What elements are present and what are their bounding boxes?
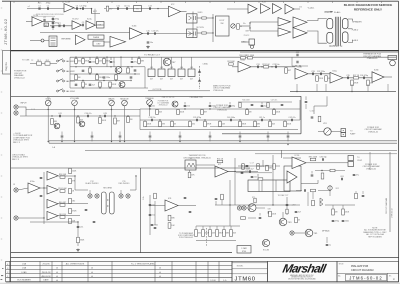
wire stub ld1 [215, 201, 217, 205]
svg-text:470R: 470R [207, 124, 212, 126]
resistor R90 [342, 209, 350, 215]
junction N26 [138, 57, 139, 58]
wire lower row long [215, 204, 300, 206]
junction N22 [106, 57, 107, 58]
op-amp U2 [32, 15, 43, 26]
bus junction 5 [287, 144, 288, 145]
wire input to grid [18, 107, 26, 116]
svg-text:C15: C15 [146, 31, 149, 33]
wire res stub 9 [284, 120, 286, 121]
capacitor C27 [256, 64, 259, 68]
resistor R92 [311, 189, 316, 192]
op-amp U10 [261, 1, 271, 13]
drawing number box [346, 274, 387, 281]
resistor R79 [209, 230, 216, 237]
svg-text:1 2 3: 1 2 3 [31, 109, 35, 111]
wire cluster drop 0 [195, 226, 197, 230]
svg-text:TO RELAY CCT: TO RELAY CCT [144, 53, 160, 56]
svg-text:330K: 330K [80, 240, 85, 242]
wire res stub 0 [144, 120, 146, 121]
schematic bottom line [11, 252, 232, 254]
capacitor C56 [179, 136, 182, 137]
wire gnd drop 3 [325, 84, 327, 92]
resistor R85 [309, 157, 318, 161]
wire preamp top row seg [238, 101, 292, 103]
capacitor C5 [43, 17, 45, 21]
wire res stub 5 [219, 120, 221, 121]
resistor R49 [246, 110, 252, 115]
wire vert ll2 [312, 192, 314, 199]
wire gnd drop 6 [387, 84, 389, 92]
svg-text:C51: C51 [80, 227, 83, 229]
jack J4 [14, 216, 18, 220]
resistor R91 [221, 194, 224, 200]
svg-text:1u: 1u [329, 245, 331, 247]
svg-text:TH1: TH1 [189, 158, 193, 160]
svg-text:1M: 1M [130, 119, 133, 121]
svg-text:33p: 33p [232, 106, 235, 108]
wire pot drop x111.5 [111, 106, 113, 142]
op-amp U11 [273, 4, 282, 14]
title cell divider [337, 272, 399, 274]
junction N3 [212, 17, 213, 18]
capacitor C46 [184, 105, 190, 107]
capacitor C16 [151, 31, 158, 35]
capacitor C74 [286, 204, 289, 205]
svg-text:C 4.7: C 4.7 [250, 163, 254, 165]
capacitor C69 [149, 214, 155, 216]
resistor R45 [318, 116, 321, 122]
junction N40 [149, 108, 150, 109]
wire out pcb underline [148, 90, 210, 92]
wire reverb bottom [30, 221, 78, 223]
capacitor C87 [215, 198, 218, 199]
junction N44 [273, 108, 274, 109]
capacitor chain column [52, 17, 54, 30]
capacitor C70 [151, 224, 158, 226]
resistor R40 [219, 121, 226, 127]
svg-text:2-1-96: 2-1-96 [210, 280, 215, 282]
svg-text:10n: 10n [152, 106, 155, 108]
svg-text:4K7: 4K7 [109, 8, 112, 10]
B+ arrowhead [331, 11, 334, 13]
resistor R77 [195, 230, 201, 237]
wire row3 [50, 25, 72, 27]
capacitor C19 [110, 61, 115, 63]
capacitor C89 [362, 195, 365, 196]
capacitor C41 [259, 117, 265, 121]
wire secondary tap 3 [348, 40, 353, 43]
wire main bus lower [49, 142, 397, 144]
jack J1 [14, 105, 18, 109]
bus junction 4 [239, 141, 240, 142]
wire main bus upper [49, 140, 397, 142]
title cell outline [337, 261, 399, 281]
frame tick marks top [14, 1, 382, 3]
wire amp3 out [58, 203, 88, 205]
ground [76, 249, 80, 252]
junction N30 [351, 91, 352, 92]
wire row seg a [145, 126, 190, 128]
svg-text:220n: 220n [154, 225, 158, 227]
svg-text:IC3a: IC3a [87, 19, 92, 21]
wire rail 4 [70, 80, 130, 82]
model box line 1 [232, 268, 268, 270]
wire tr3 drop [282, 212, 284, 218]
wire preamp left riser [139, 109, 141, 130]
divider second rule [240, 51, 399, 53]
capacitor C71 [246, 165, 249, 166]
wire tank stub 1 [89, 190, 91, 194]
resistor R14 [82, 82, 88, 87]
logo cell outline [268, 261, 338, 281]
svg-text:4k7: 4k7 [180, 78, 183, 80]
transformer T1 secondary winding lower [342, 32, 348, 43]
svg-text:R72: R72 [252, 197, 255, 199]
svg-text:100n: 100n [92, 62, 96, 64]
capacitor C73 [268, 212, 271, 213]
svg-text:V+ALL: V+ALL [308, 6, 315, 9]
wire cap drop 2 [110, 57, 112, 60]
junction N19 [99, 87, 100, 88]
svg-text:P-VCC: P-VCC [244, 35, 250, 37]
output LED circle [390, 60, 396, 66]
junction N21 [82, 87, 83, 88]
wire circle to ladder [44, 40, 49, 42]
wire op-amp IC1b output [74, 8, 92, 10]
svg-text:J.G.: J.G. [223, 280, 227, 282]
output pair box [237, 246, 251, 254]
svg-text:JTM6-05-02: JTM6-05-02 [392, 208, 394, 218]
title strip top line [11, 256, 399, 258]
svg-text:R22 68K: R22 68K [227, 61, 235, 63]
capacitor C45 [149, 105, 155, 107]
junction N4 [212, 32, 213, 33]
wire right main riser [389, 152, 391, 232]
resistor R54 [217, 159, 224, 163]
send jack box [187, 14, 198, 23]
wire cluster drop 2 [209, 226, 211, 230]
wire IC1a output [43, 21, 56, 23]
transistor Q7 [248, 204, 256, 212]
resistor R63 [69, 178, 76, 183]
resistor R88 [312, 200, 315, 206]
junction N42 [209, 108, 210, 109]
wire filter row 3 [343, 77, 372, 79]
DWG number box [3, 51, 11, 75]
wire filter row 2 [308, 73, 330, 75]
reverb spring coil right [110, 192, 115, 214]
wire right riser [144, 67, 146, 88]
svg-text:TO REV CCT: TO REV CCT [278, 195, 290, 197]
connector CN1 box [348, 156, 354, 161]
capacitor C1 [38, 6, 40, 10]
jack J9 [237, 206, 241, 210]
capacitor C67 [77, 226, 84, 228]
wire ic7 long out [228, 171, 236, 173]
resistor R66 [69, 208, 77, 213]
connector arrow 1 [198, 70, 201, 73]
pot junction 1 [48, 109, 49, 110]
wire tr stub2 [259, 213, 261, 216]
junction N6 [249, 27, 250, 28]
wire bus fourth [255, 153, 397, 155]
junction N1 [91, 8, 92, 9]
wire jack to tr2 [246, 207, 248, 209]
svg-text:LGA: LGA [22, 263, 27, 266]
phono strip divider 1 [261, 180, 263, 192]
wire LED drop 1 [151, 57, 153, 69]
capacitor C75 [295, 211, 301, 213]
wire node col [249, 23, 251, 31]
switch SW2 [57, 69, 76, 73]
transistor Q4 [172, 101, 178, 107]
svg-text:J3: J3 [13, 184, 15, 186]
svg-text:IC1b: IC1b [65, 1, 70, 3]
wire to driver b [250, 30, 278, 32]
svg-text:IC6a: IC6a [332, 70, 337, 72]
resistor R82 [230, 230, 237, 237]
svg-text:IC6b: IC6b [374, 70, 379, 72]
wire bus feed 7 [239, 138, 241, 142]
capacitor C48 [229, 105, 235, 107]
wire reverb gnd chain [77, 222, 79, 246]
wire mid riser [234, 158, 236, 205]
wire res stub 8 [269, 120, 271, 121]
resistor R48 [201, 110, 207, 115]
capacitor C23 [134, 70, 137, 71]
op-amp U3 [72, 19, 82, 30]
resistor R52 [267, 103, 269, 108]
wire amp4 out [58, 215, 80, 217]
transistor Q3 [119, 82, 125, 88]
capacitor C7 [52, 22, 59, 24]
pot junction 2 [74, 109, 75, 110]
wire tr2 out [256, 207, 265, 209]
svg-text:1M: 1M [78, 77, 81, 79]
capacitor C28 [272, 64, 279, 68]
wire HT supply rail [70, 56, 396, 58]
wire bus feed top 3 [119, 132, 121, 136]
svg-text:100K: 100K [287, 124, 292, 126]
wire bus feed top 9 [287, 132, 289, 136]
wire bus feed top 8 [267, 132, 269, 136]
op-amp U29 [292, 155, 306, 169]
capacitor C72 [241, 172, 244, 173]
svg-text:2K2: 2K2 [198, 233, 201, 235]
capacitor C49 [261, 105, 267, 107]
wire row m1 [238, 165, 280, 167]
junction N41 [184, 108, 185, 109]
wire stub p4 [261, 102, 263, 105]
capacitor C30 [297, 61, 298, 64]
revision table row line y277.7 [6, 277, 232, 279]
svg-text:2n2: 2n2 [152, 215, 155, 217]
wire jack to amp [18, 188, 28, 190]
wire vertical fx [192, 12, 194, 39]
thermistor TH1 box [185, 160, 196, 170]
wire drop mid3 [120, 57, 122, 66]
wire chain input [227, 8, 248, 10]
jack J10 [242, 206, 246, 210]
reverb tank dot 1 [107, 199, 108, 200]
capacitor C39 [193, 117, 201, 121]
junction N9 [131, 66, 132, 67]
svg-text:TREBLE: TREBLE [145, 98, 154, 100]
revision table column line x52 [51, 261, 53, 281]
resistor R73 [254, 198, 256, 203]
reverb box right edge [140, 168, 142, 253]
svg-text:JW-01-98: JW-01-98 [42, 272, 52, 274]
capacitor C52 [61, 136, 64, 137]
wire into IC1a [26, 21, 32, 23]
wire LED drop 3 [171, 57, 173, 69]
resistor R24 [285, 68, 291, 74]
svg-text:C13: C13 [148, 6, 151, 8]
capacitor C85 [342, 220, 349, 222]
junction N13 [82, 80, 83, 81]
wire amp1 drop [74, 176, 76, 190]
resistor R2 [202, 17, 206, 19]
wire lower riser b [272, 155, 274, 205]
capacitor C63 [40, 177, 43, 178]
bus junction 1 [61, 141, 62, 142]
resistor R35 [144, 121, 152, 127]
capacitor C47 [209, 105, 216, 107]
resistor R53 [188, 172, 195, 178]
wire opamp7 out [228, 171, 258, 173]
resistor R72 [258, 178, 263, 180]
block output driver [88, 35, 104, 39]
junction N7 [89, 66, 90, 67]
revision table column line x196 [195, 261, 197, 281]
op-amp U20 [372, 70, 384, 83]
capacitor C50 [251, 104, 254, 105]
svg-text:SEND RETURN LEVEL SPKR EMU: SEND RETURN LEVEL SPKR EMUL [36, 14, 64, 16]
wire stub p5 [229, 102, 231, 105]
reverb section top line [11, 167, 250, 169]
svg-text:C11: C11 [116, 6, 119, 8]
relay driver box D2 [158, 69, 165, 77]
wire right riser 2 [369, 152, 371, 170]
wire vertical node column [212, 14, 214, 42]
resistor R81 [223, 230, 230, 237]
svg-text:INPUT: INPUT [20, 103, 27, 105]
wire tr stub [248, 217, 256, 219]
wire into ic9 [150, 205, 165, 207]
bus tap x124.5 [124, 141, 125, 142]
wire cluster drop 1 [202, 226, 204, 230]
capacitor C82 [353, 174, 359, 176]
resistor R20 [239, 55, 247, 59]
resistor R39 [204, 121, 212, 127]
wire cap stub top [305, 96, 307, 100]
resistor R47 [177, 110, 185, 115]
output connector box [388, 56, 397, 60]
capacitor C34 [360, 75, 368, 79]
wire left riser [69, 57, 71, 88]
svg-text:IC8a: IC8a [30, 181, 35, 183]
capacitor C84 [332, 220, 339, 222]
sheet frame top border [2, 0, 399, 2]
capacitor C65 [85, 209, 88, 210]
svg-text:KT66: KT66 [242, 251, 246, 253]
svg-text:220K: 220K [319, 78, 324, 80]
wire th to opamp [196, 164, 215, 166]
sheet frame right border [398, 1, 400, 282]
jack J2 [14, 111, 18, 115]
wire bus feed 1 [61, 138, 63, 142]
svg-text:4k7: 4k7 [190, 78, 193, 80]
svg-text:R58 10K: R58 10K [59, 174, 67, 176]
revision table column line x219 [218, 261, 220, 281]
junction N31 [51, 115, 52, 116]
svg-text:SW: SW [221, 23, 224, 25]
wire B+ arrow [325, 11, 334, 13]
wire vert ll1 [307, 192, 309, 206]
junction mid riser [234, 171, 235, 172]
revision table column line x208 [207, 261, 209, 281]
svg-text:2K2: 2K2 [78, 61, 81, 63]
capacitor C64 [40, 195, 43, 196]
resistor R26 [325, 76, 332, 82]
wire bus feed top 7 [239, 132, 241, 136]
resistor R67 [69, 218, 76, 223]
resistor R60 [59, 202, 66, 206]
Marshall script logo [281, 262, 328, 276]
wire bus feed top 5 [179, 132, 181, 136]
wire right col drop [286, 197, 288, 215]
potentiometer P4 [109, 97, 115, 105]
capacitor C88 [304, 189, 305, 192]
junction N49 [329, 190, 330, 191]
relay driver box D5 [188, 69, 195, 77]
op-amp U23 [47, 172, 58, 181]
capacitor C58 [239, 136, 242, 137]
capacitor C57 [209, 136, 212, 137]
svg-text:JTM6-60-02: JTM6-60-02 [3, 18, 8, 45]
valve VR1 envelope [324, 128, 331, 135]
return jack box [187, 29, 198, 37]
wire res stub 2 [171, 120, 173, 121]
resistor R55 [242, 164, 248, 170]
jack J6 [95, 194, 99, 198]
wire bias [241, 41, 249, 43]
wire res stub 4 [204, 120, 206, 121]
junction N16 [89, 73, 90, 74]
svg-text:29-8-96: 29-8-96 [43, 264, 51, 266]
bus tap x111.5 [111, 141, 112, 142]
send jack symbol [189, 16, 196, 20]
capacitor C14 [148, 6, 151, 10]
wire supply drop 5 [138, 57, 140, 64]
wire row rr [315, 170, 330, 172]
connector pin box b [341, 133, 346, 137]
capacitor C78 [189, 211, 192, 212]
resistor R7 [75, 59, 81, 64]
reverb tank dot 2 [107, 205, 108, 206]
wire supply drop 3 [96, 57, 98, 64]
wire cluster drop 4 [223, 226, 225, 230]
svg-text:1M: 1M [249, 112, 252, 114]
svg-text:C35: C35 [346, 75, 349, 77]
capacitor C43 [311, 117, 314, 118]
svg-text:470p: 470p [335, 221, 339, 223]
capacitor C22 [89, 84, 95, 86]
svg-text:LOAD: LOAD [21, 271, 27, 274]
wire mid out [143, 33, 194, 35]
svg-text:C13 1u: C13 1u [124, 6, 130, 8]
